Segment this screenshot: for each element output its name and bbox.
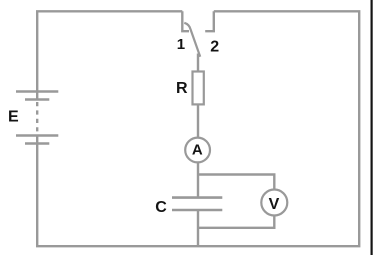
svg-text:E: E (8, 109, 19, 126)
svg-text:2: 2 (210, 38, 219, 55)
svg-text:R: R (176, 80, 188, 97)
svg-text:C: C (155, 199, 167, 216)
svg-text:A: A (192, 142, 203, 159)
svg-text:1: 1 (177, 36, 185, 53)
svg-text:V: V (269, 196, 280, 213)
